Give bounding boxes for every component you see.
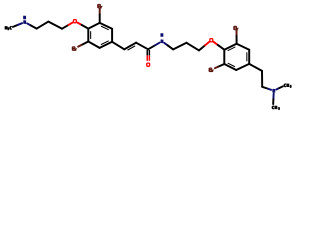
wire bond c1-c2 — [173, 43, 186, 50]
wire bond N1 to CH2 v1 — [27, 23, 31, 25]
label Br lower-left of ring1 — [73, 47, 75, 49]
wire bond bp to N3 — [262, 87, 268, 89]
benzene ring2 inner double line C1p=C2p — [228, 47, 236, 51]
benzene ring2 inner double line C5p=C6p — [246, 52, 248, 61]
vinyl C=C main line A-B — [124, 43, 136, 50]
wire bond ring1 C5 to vinyl CH A — [112, 42, 124, 50]
label Br lower-left of ring2 — [209, 68, 211, 70]
label Br top of ring1 — [98, 4, 100, 6]
wire bond O2 to ring2 C2p aryl ether — [213, 42, 217, 45]
wire bond O1 to ring1 C2 aryl ether — [77, 23, 81, 25]
wire bond N3 to CH3 upper right — [276, 88, 279, 89]
benzene ring2 bond C3p-C4p — [224, 64, 236, 70]
wire bond carbonyl C to amide N2 — [148, 45, 155, 49]
label N2 amide N — [161, 40, 162, 43]
benzene ring1 inner double line C6=C1 — [101, 26, 109, 30]
bond ring2 C3p to Br lower-left — [218, 64, 225, 67]
benzene ring1 bond C3-C4 — [88, 42, 99, 48]
label H on N1 — [24, 16, 25, 19]
bond Br top to ring2 C1p — [236, 30, 238, 36]
label CH3 upper right methyl — [284, 84, 286, 86]
benzene ring1 bond C1-C2 — [88, 23, 99, 29]
wire bond c3 to ether O2 — [199, 45, 205, 50]
wire bond ring2 C5p to CH2 ap — [249, 64, 262, 71]
carbonyl C=O double bond line 2 — [148, 50, 150, 55]
wire bond v2-v3 — [48, 22, 62, 29]
label CH3 lower methyl — [272, 106, 274, 108]
carbonyl C=O double bond line 1 — [146, 50, 148, 55]
benzene ring1 bond C6-C1 — [100, 23, 112, 29]
benzene ring2 bond C6p-C1p — [237, 44, 250, 50]
benzene ring2 bond C5p-C6p — [248, 50, 250, 64]
wire bond ap-bp vertical — [261, 71, 263, 87]
wire bond v1-v2 — [37, 22, 49, 29]
wire bond vinyl B to carbonyl C — [136, 43, 148, 50]
bond Br top to ring1 C1 — [99, 8, 101, 14]
benzene ring2 bond C1p-C2p — [224, 44, 236, 50]
label N3 dimethylamino N — [273, 89, 274, 92]
benzene ring2 bond C2p-C3p — [223, 50, 225, 64]
bond ring1 C3 to Br lower-left — [81, 42, 88, 46]
benzene ring1 bond C5-C6 — [111, 29, 113, 42]
label O2 ether oxygen right — [210, 39, 213, 42]
wire bond c2-c3 — [187, 43, 200, 51]
benzene ring1 bond C2-C3 — [87, 29, 89, 42]
chemical structure drawing of a psammaplysene-type bromotyrosine alkaloid — [0, 0, 300, 118]
benzene ring2 inner double line C3p=C4p — [228, 63, 235, 67]
label O1 ether oxygen left — [73, 20, 76, 23]
label H3C methyl left end — [5, 26, 6, 29]
label Br top of ring2 — [234, 26, 236, 28]
wire bond H3C to N1 — [13, 25, 18, 27]
benzene ring1 bond C4-C5 — [100, 42, 113, 48]
benzene ring1 inner double line C2=C3 — [90, 31, 92, 39]
benzene ring2 bond C4p-C5p — [236, 64, 249, 70]
vinyl C=C second line below — [128, 46, 136, 50]
label H on N2 — [161, 33, 162, 36]
wire bond N3 to CH3 lower vertical — [272, 94, 274, 100]
label N1 amine N — [24, 20, 25, 23]
wire bond v3 to O1 — [62, 25, 68, 29]
label O carbonyl oxygen — [147, 63, 150, 66]
benzene ring1 inner double line C4=C5 — [101, 41, 109, 45]
wire bond amide N2 to CH2 c1 — [164, 43, 167, 45]
